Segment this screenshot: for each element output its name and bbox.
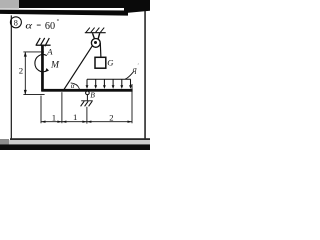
moment M arc bbox=[35, 55, 47, 72]
support B link bbox=[86, 95, 88, 101]
bottom dimension line bbox=[41, 121, 132, 123]
svg-text:8: 8 bbox=[14, 19, 18, 28]
ceiling hatching bbox=[86, 28, 104, 33]
load q leader line bbox=[125, 72, 133, 79]
svg-text:M: M bbox=[50, 60, 60, 71]
distributed load q: top line bbox=[87, 78, 131, 80]
support B hatching bbox=[81, 101, 93, 106]
left frame border bbox=[11, 15, 12, 139]
top thick rule bbox=[0, 10, 128, 16]
pulley bracket bbox=[93, 33, 95, 40]
bottom-left dark grey patch bbox=[0, 139, 9, 144]
ceiling line above pulley bbox=[85, 32, 106, 34]
wall support at A: wall line bbox=[36, 44, 51, 46]
svg-text:B: B bbox=[90, 91, 95, 100]
dimension 2 (vertical, left): top extension line bbox=[23, 51, 44, 53]
paper background bbox=[0, 0, 150, 150]
svg-text:1: 1 bbox=[52, 112, 56, 122]
svg-text:=: = bbox=[36, 21, 41, 30]
svg-text:1: 1 bbox=[73, 112, 77, 122]
svg-text:α: α bbox=[71, 82, 75, 90]
top scan edge (black band) bbox=[16, 0, 150, 8]
angle alpha arc at beam bbox=[71, 83, 80, 89]
top-left grey corner bbox=[0, 0, 19, 9]
right frame border bbox=[144, 11, 146, 140]
bottom dimension: extension line x=86.9 bbox=[86, 107, 88, 124]
vertical member A (column) bbox=[41, 45, 44, 92]
wall hatching bbox=[36, 38, 49, 46]
cable from pulley to weight bbox=[99, 43, 102, 57]
beam bbox=[41, 89, 132, 92]
pulley wheel bbox=[91, 39, 100, 48]
svg-text:G: G bbox=[107, 58, 114, 68]
weight box G bbox=[95, 57, 106, 68]
bottom dimension: extension line x=132 bbox=[131, 84, 133, 123]
bottom dimension: extension line x=61.9 bbox=[61, 92, 63, 123]
bottom scan edge (black band) bbox=[0, 144, 150, 150]
support B ground line bbox=[81, 100, 93, 102]
bottom grey band bbox=[0, 140, 150, 144]
pulley hub bbox=[94, 41, 97, 44]
problem number circle 8 bbox=[10, 17, 21, 28]
svg-text:q: q bbox=[133, 65, 137, 74]
bottom frame border bbox=[10, 138, 150, 140]
svg-text:′: ′ bbox=[138, 64, 139, 69]
moment M arrowhead bbox=[45, 68, 49, 72]
cable from beam to pulley bbox=[63, 46, 92, 91]
dimension 2: top arrowhead bbox=[24, 52, 27, 57]
dimension 2: bottom arrowhead bbox=[24, 90, 27, 95]
dimension 2: vertical line bbox=[24, 52, 26, 94]
top-right merged black bbox=[124, 0, 150, 13]
svg-text:2: 2 bbox=[19, 66, 23, 76]
pulley axle housing bbox=[94, 39, 99, 41]
svg-text:60: 60 bbox=[45, 21, 55, 32]
bottom dimension: extension line x=41 bbox=[40, 96, 42, 124]
bottom dimension arrowheads bbox=[41, 121, 132, 123]
svg-text:A: A bbox=[46, 46, 53, 56]
svg-text:2: 2 bbox=[109, 112, 113, 122]
support B: pin circle bbox=[86, 91, 90, 95]
dimension 2: bottom extension line bbox=[23, 94, 44, 96]
distributed load arrows bbox=[87, 79, 131, 86]
